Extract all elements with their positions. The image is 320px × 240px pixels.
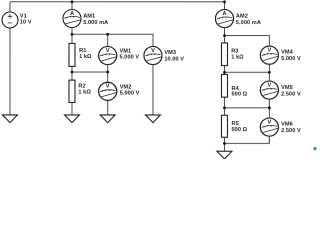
svg-text:VM6: VM6 xyxy=(281,121,293,127)
svg-text:1 kΩ: 1 kΩ xyxy=(78,90,91,96)
svg-text:V: V xyxy=(151,48,155,54)
svg-text:5.000 mA: 5.000 mA xyxy=(236,20,261,26)
svg-text:VM4: VM4 xyxy=(281,50,294,56)
svg-text:10.00 V: 10.00 V xyxy=(164,57,184,63)
svg-text:5.000 V: 5.000 V xyxy=(120,91,140,97)
svg-text:V: V xyxy=(267,47,271,53)
svg-text:V: V xyxy=(106,48,110,54)
svg-text:V: V xyxy=(267,119,271,125)
svg-text:A: A xyxy=(70,11,74,17)
svg-text:2.500 V: 2.500 V xyxy=(281,128,301,134)
svg-text:V: V xyxy=(267,82,271,88)
svg-text:10 V: 10 V xyxy=(20,19,32,25)
svg-text:VM2: VM2 xyxy=(120,85,132,91)
svg-text:1 kΩ: 1 kΩ xyxy=(79,54,92,60)
svg-text:2.500 V: 2.500 V xyxy=(281,92,301,98)
svg-text:1 kΩ: 1 kΩ xyxy=(231,54,244,60)
svg-text:5.000 V: 5.000 V xyxy=(281,56,301,62)
svg-text:AM2: AM2 xyxy=(236,14,248,20)
svg-text:V: V xyxy=(106,84,110,90)
svg-text:500 Ω: 500 Ω xyxy=(231,92,247,98)
svg-text:VM3: VM3 xyxy=(164,50,176,56)
svg-text:A: A xyxy=(222,11,226,17)
svg-text:5.000 V: 5.000 V xyxy=(119,54,139,60)
svg-text:VM5: VM5 xyxy=(281,85,293,91)
svg-text:5.000 mA: 5.000 mA xyxy=(83,20,108,26)
svg-text:AM1: AM1 xyxy=(83,14,95,20)
svg-text:500 Ω: 500 Ω xyxy=(231,127,247,133)
